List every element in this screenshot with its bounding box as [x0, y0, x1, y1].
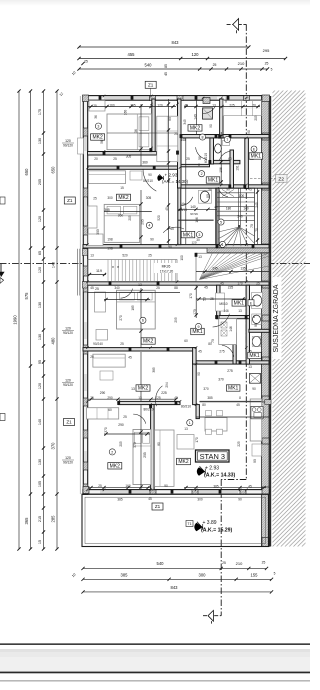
svg-text:5: 5	[271, 68, 273, 72]
svg-text:3: 3	[97, 125, 99, 129]
svg-text:80: 80	[206, 194, 210, 198]
svg-text:80/210: 80/210	[143, 408, 153, 412]
svg-text:80/210: 80/210	[143, 179, 153, 183]
svg-text:T1: T1	[188, 522, 192, 526]
svg-text:4: 4	[148, 224, 150, 228]
svg-text:90: 90	[226, 188, 230, 192]
svg-text:MK1: MK1	[208, 178, 219, 184]
svg-text:90: 90	[164, 484, 168, 488]
svg-text:175: 175	[38, 109, 42, 115]
svg-text:225: 225	[228, 286, 234, 290]
svg-text:340: 340	[114, 286, 120, 290]
svg-text:300: 300	[197, 498, 203, 502]
svg-text:130: 130	[38, 138, 42, 144]
svg-text:MK1: MK1	[228, 386, 239, 392]
svg-text:130: 130	[38, 302, 42, 308]
svg-text:198: 198	[107, 247, 113, 251]
svg-text:245: 245	[255, 202, 259, 208]
svg-text:385: 385	[117, 498, 123, 502]
svg-text:Z2: Z2	[278, 177, 284, 183]
svg-text:345: 345	[183, 119, 187, 125]
svg-text:305: 305	[146, 196, 152, 200]
svg-text:MK2: MK2	[178, 459, 189, 465]
svg-text:575: 575	[24, 292, 29, 300]
svg-text:+ 2.93: + 2.93	[165, 173, 178, 178]
svg-text:+ 2.93: + 2.93	[205, 465, 219, 471]
svg-text:160: 160	[109, 104, 115, 108]
svg-text:45: 45	[236, 403, 240, 407]
svg-text:45: 45	[198, 350, 202, 354]
svg-text:90/120: 90/120	[63, 331, 73, 335]
svg-text:16x: 16x	[180, 202, 186, 206]
svg-text:370: 370	[51, 442, 56, 450]
svg-text:225: 225	[229, 104, 235, 108]
svg-text:155: 155	[251, 572, 259, 577]
svg-text:360: 360	[142, 161, 148, 165]
svg-text:Z1: Z1	[155, 504, 161, 509]
svg-text:290: 290	[118, 423, 124, 427]
svg-text:540: 540	[145, 62, 153, 67]
svg-text:SUSJEDNA ZGRADA: SUSJEDNA ZGRADA	[273, 284, 280, 352]
svg-text:(A.K.= 15.29): (A.K.= 15.29)	[201, 528, 233, 534]
svg-text:210: 210	[236, 561, 243, 566]
svg-text:140: 140	[190, 205, 196, 209]
svg-text:130: 130	[38, 459, 42, 465]
svg-text:3: 3	[198, 233, 200, 237]
svg-text:295: 295	[174, 317, 178, 323]
svg-text:MK2: MK2	[190, 126, 201, 132]
svg-text:843: 843	[172, 40, 180, 45]
svg-text:240: 240	[237, 215, 243, 219]
svg-text:120: 120	[38, 267, 42, 273]
svg-text:25: 25	[156, 286, 160, 290]
svg-text:80: 80	[157, 442, 161, 446]
svg-text:140: 140	[38, 419, 42, 425]
svg-text:25: 25	[93, 197, 97, 201]
svg-text:25: 25	[123, 415, 127, 419]
svg-text:13: 13	[131, 387, 135, 391]
svg-text:90: 90	[150, 238, 154, 242]
svg-text:290: 290	[100, 391, 106, 395]
svg-text:370: 370	[133, 442, 137, 448]
svg-text:45: 45	[164, 72, 168, 76]
svg-text:119: 119	[96, 269, 102, 273]
svg-text:90/120: 90/120	[63, 144, 73, 148]
svg-text:MK1: MK1	[183, 232, 194, 238]
svg-text:45: 45	[90, 286, 94, 290]
svg-text:20: 20	[90, 355, 94, 359]
svg-text:45: 45	[220, 282, 224, 286]
svg-text:15: 15	[38, 540, 42, 544]
svg-text:8: 8	[225, 100, 227, 104]
svg-text:88: 88	[174, 286, 178, 290]
svg-text:300: 300	[199, 572, 207, 577]
svg-text:2: 2	[111, 450, 113, 454]
svg-text:13: 13	[90, 254, 94, 258]
svg-text:80: 80	[202, 403, 206, 407]
svg-text:25: 25	[95, 287, 99, 291]
svg-text:25: 25	[222, 561, 226, 565]
svg-text:13: 13	[198, 255, 202, 259]
svg-text:275: 275	[219, 350, 225, 354]
svg-text:90: 90	[168, 117, 172, 121]
svg-text:MK2: MK2	[143, 339, 154, 345]
svg-text:120: 120	[38, 383, 42, 389]
svg-text:(A.K.= 14.33): (A.K.= 14.33)	[204, 472, 236, 478]
svg-text:13: 13	[212, 104, 216, 108]
svg-text:45: 45	[248, 188, 252, 192]
svg-text:80: 80	[208, 342, 212, 346]
svg-text:305: 305	[126, 155, 132, 159]
svg-text:58: 58	[208, 188, 212, 192]
svg-text:25: 25	[214, 205, 218, 209]
svg-text:45: 45	[148, 497, 152, 501]
svg-text:70: 70	[255, 228, 259, 232]
svg-text:M010: M010	[219, 302, 227, 306]
svg-text:MK1: MK1	[251, 154, 262, 160]
svg-text:36: 36	[134, 129, 138, 133]
svg-text:120: 120	[157, 104, 163, 108]
svg-text:146: 146	[229, 326, 233, 332]
svg-text:385: 385	[152, 367, 156, 373]
svg-text:45: 45	[170, 227, 174, 231]
svg-text:105: 105	[38, 481, 42, 487]
svg-text:340: 340	[180, 138, 186, 142]
svg-text:17x17,20: 17x17,20	[160, 270, 174, 274]
svg-text:9: 9	[198, 325, 200, 329]
svg-text:300: 300	[96, 229, 100, 235]
svg-text:843: 843	[171, 585, 179, 590]
svg-text:130: 130	[38, 334, 42, 340]
svg-text:185: 185	[131, 305, 135, 311]
svg-text:370: 370	[203, 387, 209, 391]
svg-text:205: 205	[119, 441, 123, 447]
svg-text:120: 120	[192, 52, 200, 57]
svg-text:90: 90	[252, 387, 256, 391]
svg-text:520: 520	[122, 254, 128, 258]
svg-text:90: 90	[209, 124, 213, 128]
svg-text:106: 106	[195, 217, 199, 223]
svg-text:13: 13	[138, 283, 142, 287]
svg-text:385: 385	[121, 572, 129, 577]
svg-text:300: 300	[107, 196, 113, 200]
svg-text:STAN 3: STAN 3	[200, 452, 225, 461]
svg-text:15: 15	[120, 186, 124, 190]
svg-text:205: 205	[254, 115, 258, 121]
svg-text:225: 225	[161, 391, 167, 395]
svg-text:60/210: 60/210	[204, 153, 208, 163]
svg-text:215: 215	[38, 516, 42, 522]
svg-text:28/18: 28/18	[179, 208, 187, 212]
svg-text:270: 270	[119, 315, 123, 321]
svg-text:25: 25	[174, 132, 178, 136]
svg-text:MK2: MK2	[118, 195, 129, 201]
svg-text:285: 285	[51, 515, 56, 523]
svg-text:135: 135	[240, 267, 246, 271]
svg-text:275: 275	[227, 369, 233, 373]
svg-text:25: 25	[213, 63, 217, 67]
svg-text:13: 13	[184, 427, 188, 431]
svg-text:36: 36	[94, 115, 98, 119]
svg-text:60: 60	[184, 339, 188, 343]
svg-text:45: 45	[204, 286, 208, 290]
svg-text:90/120: 90/120	[63, 461, 73, 465]
svg-text:25: 25	[113, 157, 117, 161]
svg-text:8: 8	[202, 135, 204, 139]
svg-text:13: 13	[248, 365, 252, 369]
svg-text:20: 20	[94, 157, 98, 161]
svg-text:365: 365	[24, 517, 29, 525]
svg-text:+ 3.89: + 3.89	[203, 520, 217, 526]
svg-text:170: 170	[195, 437, 199, 443]
svg-text:210: 210	[238, 61, 245, 66]
svg-text:90: 90	[148, 173, 152, 177]
svg-text:305: 305	[104, 208, 110, 212]
svg-text:97/16: 97/16	[190, 212, 198, 216]
svg-text:8: 8	[239, 396, 241, 400]
svg-text:90/120: 90/120	[63, 383, 73, 387]
svg-text:650: 650	[51, 166, 56, 174]
svg-text:90: 90	[254, 323, 258, 327]
svg-text:1990: 1990	[13, 315, 18, 325]
svg-text:90: 90	[247, 130, 251, 134]
svg-text:13: 13	[238, 309, 242, 313]
svg-text:6: 6	[142, 319, 144, 323]
svg-text:120: 120	[65, 378, 71, 382]
svg-text:650: 650	[24, 168, 29, 176]
svg-text:540: 540	[157, 561, 165, 566]
svg-text:370: 370	[218, 378, 224, 382]
svg-text:Z1: Z1	[67, 198, 73, 203]
svg-text:140: 140	[52, 262, 56, 268]
svg-text:Z1: Z1	[66, 420, 72, 425]
svg-text:70: 70	[252, 104, 256, 108]
svg-text:80/210: 80/210	[181, 405, 191, 409]
svg-text:8: 8	[198, 163, 200, 167]
svg-text:25: 25	[262, 561, 266, 565]
svg-text:MK1: MK1	[249, 353, 260, 359]
svg-text:5: 5	[274, 572, 276, 576]
svg-text:120: 120	[38, 216, 42, 222]
svg-text:385: 385	[207, 396, 213, 400]
svg-text:225: 225	[237, 441, 241, 447]
svg-text:8: 8	[253, 315, 255, 319]
svg-text:90: 90	[197, 372, 201, 376]
svg-text:360: 360	[118, 214, 124, 218]
svg-text:205: 205	[143, 452, 147, 458]
svg-text:295: 295	[263, 48, 270, 53]
svg-text:60: 60	[108, 408, 112, 412]
svg-text:205: 205	[128, 215, 132, 221]
svg-text:2: 2	[201, 172, 203, 176]
svg-text:60: 60	[228, 157, 232, 161]
svg-text:520: 520	[157, 215, 161, 221]
svg-text:MK2: MK2	[92, 135, 103, 141]
svg-text:120: 120	[65, 326, 71, 330]
svg-text:1: 1	[189, 421, 191, 425]
svg-text:MK1: MK1	[234, 301, 245, 307]
svg-text:90: 90	[238, 498, 242, 502]
svg-text:85: 85	[164, 64, 168, 68]
svg-text:Z1: Z1	[148, 82, 154, 87]
svg-text:120: 120	[65, 139, 71, 143]
svg-text:294: 294	[165, 382, 169, 388]
svg-text:146: 146	[223, 309, 229, 313]
svg-text:480: 480	[51, 337, 56, 345]
svg-text:65: 65	[38, 251, 42, 255]
svg-text:25: 25	[256, 282, 260, 286]
svg-text:198: 198	[107, 238, 113, 242]
svg-text:25: 25	[265, 62, 269, 66]
svg-text:45: 45	[128, 356, 132, 360]
svg-text:370: 370	[104, 427, 108, 433]
svg-text:7: 7	[226, 138, 228, 142]
svg-text:120: 120	[65, 456, 71, 460]
svg-text:100: 100	[180, 255, 184, 261]
svg-text:160: 160	[124, 110, 128, 116]
svg-text:191: 191	[236, 165, 240, 171]
svg-text:E: E	[250, 301, 252, 305]
svg-text:140: 140	[194, 114, 198, 120]
svg-text:90: 90	[253, 459, 257, 463]
svg-text:180: 180	[226, 207, 232, 211]
svg-text:25: 25	[120, 342, 124, 346]
svg-text:25: 25	[148, 254, 152, 258]
svg-text:25: 25	[84, 60, 88, 64]
svg-text:245: 245	[212, 267, 218, 271]
svg-text:25: 25	[186, 157, 190, 161]
svg-text:45: 45	[165, 207, 169, 211]
svg-text:(A.K.= 14.30): (A.K.= 14.30)	[162, 179, 189, 184]
svg-text:170: 170	[237, 282, 243, 286]
svg-text:205: 205	[141, 219, 145, 225]
svg-text:25: 25	[93, 104, 97, 108]
svg-text:30: 30	[196, 238, 200, 242]
svg-text:MK2: MK2	[138, 386, 149, 392]
svg-text:455: 455	[128, 52, 136, 57]
svg-text:58: 58	[198, 156, 202, 160]
svg-text:140: 140	[243, 207, 249, 211]
svg-text:70: 70	[250, 224, 254, 228]
svg-text:MK26: MK26	[162, 265, 171, 269]
svg-text:90: 90	[168, 245, 172, 249]
svg-text:100: 100	[239, 194, 245, 198]
svg-text:5: 5	[220, 220, 222, 224]
svg-text:MK1: MK1	[192, 329, 203, 335]
svg-text:MK2: MK2	[110, 464, 121, 470]
svg-text:90/240: 90/240	[93, 342, 103, 346]
svg-text:95: 95	[38, 360, 42, 364]
svg-text:170: 170	[189, 293, 193, 299]
svg-text:205: 205	[38, 179, 42, 185]
